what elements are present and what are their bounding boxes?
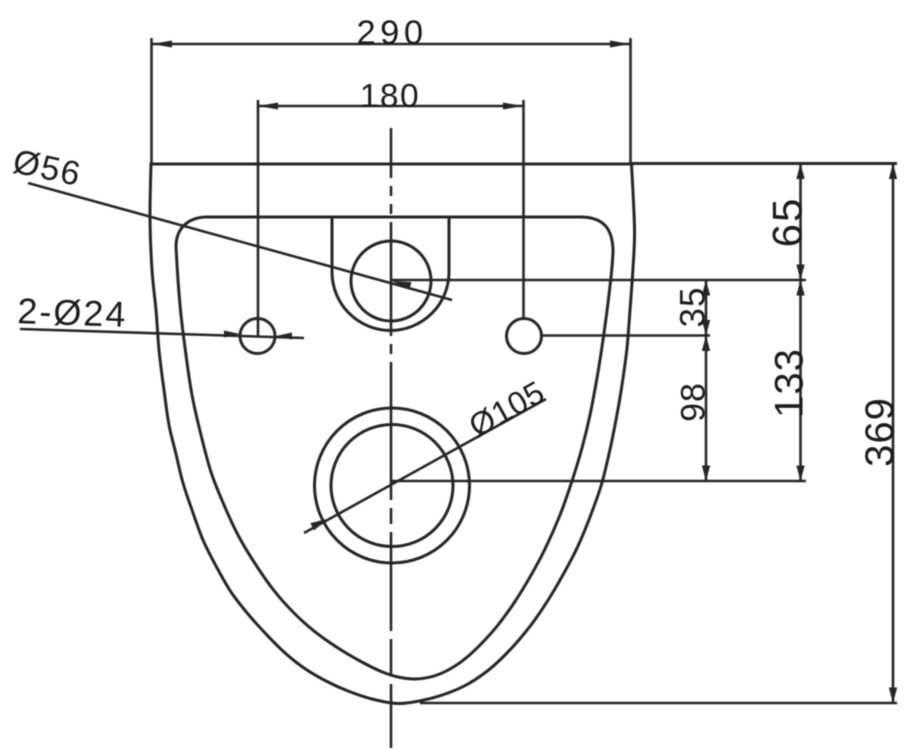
arrow leader D56 (392, 281, 411, 290)
arrow 133 top (796, 280, 804, 296)
large hole inner circle (331, 425, 453, 547)
leader line D56 (28, 183, 452, 300)
arrow 369 top (889, 164, 897, 180)
arrow 290 left (152, 41, 172, 48)
svg-text:Ø56: Ø56 (10, 143, 85, 194)
svg-text:65: 65 (764, 197, 811, 248)
leader line D105 (304, 399, 546, 533)
horizontal line from D105 center to right chain (392, 480, 806, 483)
arrow 98 top (702, 336, 710, 352)
dim 290 line (152, 43, 630, 46)
arrow 35 bottom (702, 320, 710, 336)
left small hole D24 (240, 319, 275, 354)
svg-text:35: 35 (674, 287, 713, 328)
dim 290 right extension line (629, 38, 632, 163)
right small hole D24 (507, 319, 542, 354)
arrow 290 right (610, 41, 630, 48)
svg-text:2-Ø24: 2-Ø24 (17, 290, 128, 335)
leader line 2-D24 (20, 329, 304, 338)
inner plate contour (176, 217, 613, 679)
arrow leader D105 (310, 519, 327, 530)
vertical centerline (dashed) (390, 128, 393, 748)
svg-text:180: 180 (360, 78, 420, 115)
vertical dim line 35/98 (705, 280, 708, 481)
arrow 369 bottom (889, 688, 897, 704)
dim 180 left extension line down to hole (257, 100, 260, 336)
svg-text:98: 98 (675, 382, 713, 422)
dim 180 line (258, 105, 523, 108)
bottom extension line to 369 chain (420, 702, 897, 705)
arrow 65 bottom (796, 265, 804, 281)
svg-text:290: 290 (356, 14, 427, 52)
arrow 2-D24 right (276, 333, 292, 340)
dim 180 right extension line down to hole (522, 100, 525, 320)
large hole outer circle D105 (315, 408, 470, 563)
outer plate outline (150, 164, 635, 704)
horizontal line from right hole to 35/98 chain (541, 334, 710, 337)
arrow 35 top (702, 280, 710, 296)
vertical dim line 369 (892, 164, 895, 704)
arrow 180 left (258, 103, 278, 110)
svg-text:369: 369 (858, 397, 902, 467)
top edge extension line to right chain (631, 162, 897, 165)
arrow 98 bottom (702, 466, 710, 482)
svg-text:133: 133 (768, 348, 812, 418)
pocket recess U-shape around top hole (332, 217, 449, 331)
arrow 65 top (796, 164, 804, 180)
vertical dim line 65/133 (799, 164, 802, 482)
arrow 180 right (503, 103, 523, 110)
hole circle D56 (351, 241, 431, 321)
dim 290 left extension line (150, 38, 153, 163)
svg-text:Ø105: Ø105 (463, 374, 551, 444)
arrow 2-D24 left (224, 331, 240, 338)
arrow 133 bottom (796, 466, 804, 482)
horizontal line from D56 center to right chain (391, 279, 806, 282)
